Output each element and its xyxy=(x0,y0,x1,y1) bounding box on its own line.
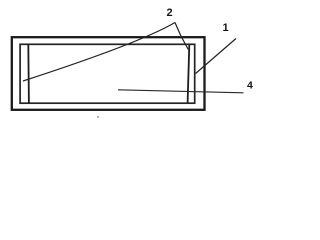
leader line from 2 to right electrode xyxy=(175,22,188,49)
right electrode divider 2 xyxy=(188,44,190,103)
speck xyxy=(97,116,99,118)
left electrode divider 2 xyxy=(27,44,30,103)
svg-text:1: 1 xyxy=(222,22,228,34)
svg-text:2: 2 xyxy=(167,7,173,19)
leader line from 2 to left electrode xyxy=(23,23,175,82)
inner cavity rect xyxy=(20,44,195,103)
svg-text:4: 4 xyxy=(247,80,253,92)
outer cell body rect 1 xyxy=(12,37,205,110)
leader line from 1 to cell wall xyxy=(196,39,236,74)
leader line from 4 to interior xyxy=(118,90,244,93)
